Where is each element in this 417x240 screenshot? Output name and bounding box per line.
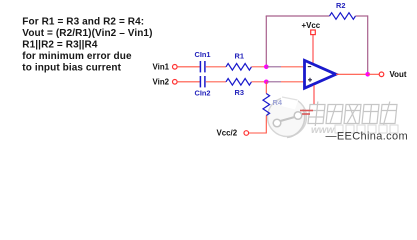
svg-text:CIn1: CIn1 (195, 50, 211, 59)
svg-text:R4: R4 (273, 98, 283, 107)
wire feedback rail top horizontal (266, 15, 330, 17)
svg-text:to input bias current: to input bias current (22, 62, 121, 73)
watermark logo circle (268, 93, 307, 138)
svg-text:Vout = (R2/R1)(Vin2 – Vin1): Vout = (R2/R1)(Vin2 – Vin1) (22, 28, 152, 39)
watermark red dashes (300, 111, 313, 115)
resistor R2 (330, 13, 356, 20)
terminal circle Vcc/2 (244, 131, 249, 136)
svg-text:CIn2: CIn2 (195, 88, 211, 97)
resistor R4 (vertical) (263, 94, 270, 116)
wire node B down to R4 (265, 82, 267, 94)
svg-text:R1: R1 (235, 52, 244, 61)
svg-text:+Vcc: +Vcc (302, 21, 321, 30)
svg-text:Vin1: Vin1 (153, 63, 170, 72)
wire CIn2 to R3 (206, 81, 226, 83)
wire op-amp output (336, 73, 368, 75)
wire feedback rail vertical left (265, 16, 267, 67)
node A junction dot (264, 65, 269, 70)
capacitor CIn1 (200, 61, 205, 72)
node output junction dot (365, 72, 370, 77)
op-amp minus sign (308, 66, 311, 68)
wire feedback rail vertical right (367, 15, 369, 74)
wire Vin2 to CIn2 (177, 81, 200, 83)
capacitor CIn2 (200, 76, 205, 87)
svg-text:R1||R2 = R3||R4: R1||R2 = R3||R4 (22, 40, 98, 51)
resistor R3 (226, 79, 251, 86)
terminal square +Vcc (311, 30, 316, 35)
svg-text:Vin2: Vin2 (153, 78, 170, 87)
terminal circle Vin1 (173, 65, 178, 70)
wire node B to op-amp plus input (266, 81, 304, 83)
wire node A to op-amp minus input (266, 66, 304, 68)
svg-text:R3: R3 (235, 88, 244, 97)
wire R1 to node A (252, 66, 267, 68)
op-amp U1 triangle (305, 60, 337, 88)
watermark CJK outlined text row (308, 102, 398, 127)
wire R3 to node B (252, 81, 267, 83)
wire R2 to right rail (356, 15, 368, 17)
wire output to Vout terminal (368, 73, 379, 75)
wire +Vcc to op-amp (312, 35, 314, 65)
svg-text:For R1 = R3 and R2 = R4:: For R1 = R3 and R2 = R4: (22, 17, 144, 28)
svg-text:R2: R2 (336, 1, 345, 10)
wire CIn1 to R1 (206, 66, 226, 68)
terminal circle Vin2 (173, 80, 178, 85)
wire op-amp negative supply down (313, 85, 315, 104)
resistor R1 (226, 64, 251, 71)
svg-text:Vout: Vout (390, 70, 407, 79)
terminal circle Vout (379, 72, 384, 77)
note: formula text block (22, 17, 152, 74)
wire Vin1 to CIn1 (177, 66, 200, 68)
watermark small www row (311, 125, 398, 136)
op-amp plus sign (308, 78, 312, 82)
node B junction dot (264, 80, 269, 85)
svg-text:Vcc/2: Vcc/2 (217, 129, 238, 138)
svg-text:for minimum error due: for minimum error due (22, 51, 132, 62)
svg-text:—EEChina.com: —EEChina.com (326, 131, 408, 143)
wire R4 to Vcc/2 corner (249, 116, 266, 134)
